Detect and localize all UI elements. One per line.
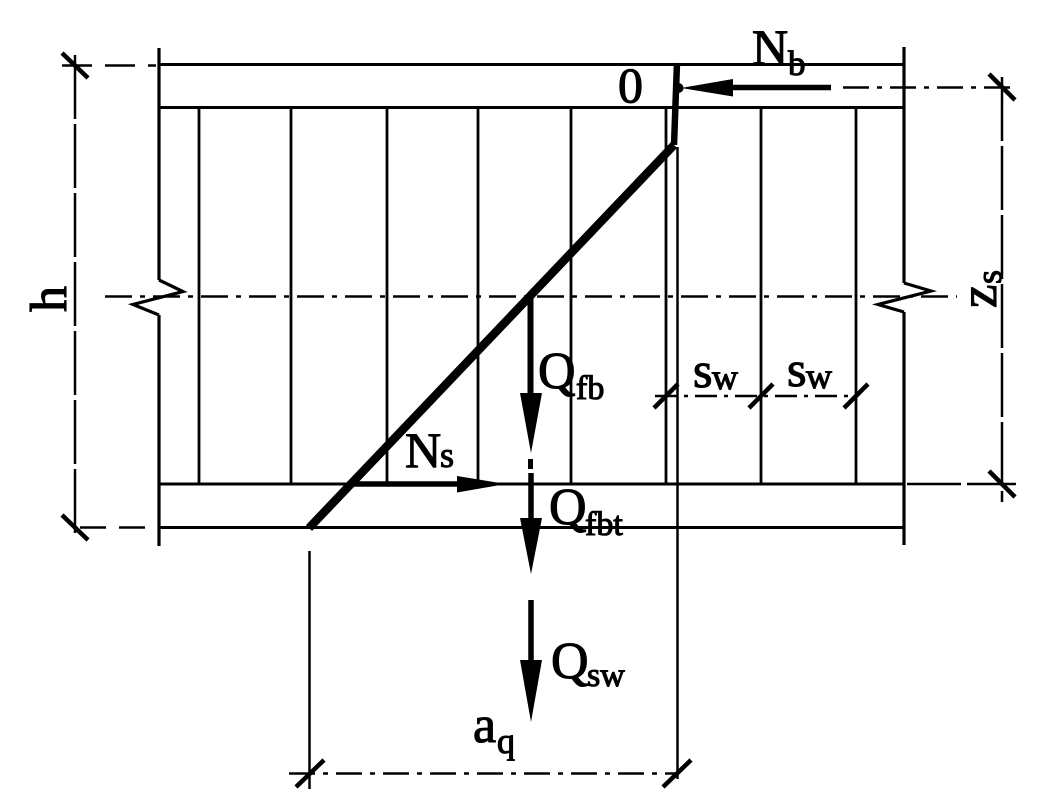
svg-text:fb: fb — [576, 370, 604, 407]
dimension h bottom tick — [62, 515, 88, 540]
bottom chord top line — [158, 483, 904, 486]
svg-text:s: s — [440, 435, 454, 475]
right edge lower segment — [902, 312, 905, 545]
left edge break zigzag — [133, 280, 183, 315]
svg-text:Q: Q — [551, 633, 589, 690]
arrow N_b shaft — [726, 85, 831, 91]
dimension s_w line dash-dot — [655, 395, 857, 398]
right edge upper segment — [902, 47, 905, 283]
a_q left tick — [296, 760, 324, 787]
left edge upper segment — [157, 48, 160, 280]
stirrup 6 — [665, 107, 668, 484]
dimension h top extension dashes — [62, 64, 156, 67]
svg-text:a: a — [473, 697, 496, 754]
dimension z_s bottom tick — [989, 471, 1015, 497]
bottom chord bottom line — [158, 526, 904, 529]
dimension h line — [74, 55, 77, 535]
top chord bottom line — [158, 106, 904, 109]
stirrup 1 — [198, 107, 201, 484]
svg-text:z: z — [950, 284, 1008, 308]
stirrup 4 — [477, 107, 480, 484]
s_w tick 2 — [749, 384, 773, 408]
svg-text:s: s — [787, 341, 806, 397]
stirrup 3 — [386, 107, 389, 484]
extension line at diagonal bottom end — [308, 551, 311, 789]
svg-text:N: N — [752, 19, 788, 75]
svg-text:w: w — [712, 357, 738, 397]
diagonal crack top steep segment — [674, 63, 677, 145]
stirrup 8 — [855, 107, 858, 484]
dimension z_s line — [1001, 77, 1004, 502]
dimension h bottom extension dashes — [80, 526, 156, 529]
svg-text:q: q — [497, 721, 515, 761]
svg-text:s: s — [693, 342, 712, 398]
svg-text:sw: sw — [587, 657, 625, 694]
stirrup 2 — [290, 107, 293, 484]
svg-text:0: 0 — [618, 57, 643, 113]
arrow N_s shaft — [354, 481, 462, 487]
svg-text:h: h — [21, 286, 78, 312]
arrow N_b head — [681, 79, 733, 97]
arrow Q_sw head — [520, 660, 542, 722]
arrow Q_fbt shaft — [528, 473, 534, 522]
svg-text:Q: Q — [549, 479, 587, 536]
s_w tick 3 — [844, 384, 868, 408]
svg-text:w: w — [806, 356, 832, 396]
dimension z_s bottom extension line — [907, 483, 1016, 486]
label z_s rotated — [950, 270, 1009, 308]
arrow Q_fbt head — [520, 518, 542, 574]
svg-text:Q: Q — [538, 343, 576, 400]
dash between Q_fb and Q_fbt — [528, 459, 533, 469]
node 0 dot — [674, 83, 684, 93]
stirrup 7 — [760, 107, 763, 484]
N_b tail dash-dot extension to z_s — [843, 86, 1013, 89]
dimension h top tick — [62, 53, 88, 78]
dimension z_s top tick — [989, 74, 1015, 100]
arrow N_s head — [457, 476, 506, 493]
top chord top line — [158, 63, 904, 66]
svg-text:N: N — [405, 422, 441, 478]
vertical reference line through node 0 down to a_q — [676, 147, 679, 779]
s_w tick 1 — [654, 384, 678, 408]
arrow Q_sw shaft — [528, 600, 534, 664]
arrow Q_fb head — [520, 393, 542, 453]
centerline dash-dot — [105, 295, 957, 298]
stirrup 5 — [570, 107, 573, 484]
svg-text:b: b — [788, 44, 806, 83]
left edge lower segment — [157, 315, 160, 546]
svg-text:s: s — [969, 270, 1009, 284]
dimension a_q line dash-dot — [289, 772, 679, 775]
a_q right tick — [663, 760, 691, 787]
diagonal crack main segment — [309, 145, 674, 528]
arrow Q_fb shaft — [528, 298, 534, 398]
right edge break zigzag — [878, 283, 931, 312]
svg-text:fbt: fbt — [585, 506, 623, 543]
